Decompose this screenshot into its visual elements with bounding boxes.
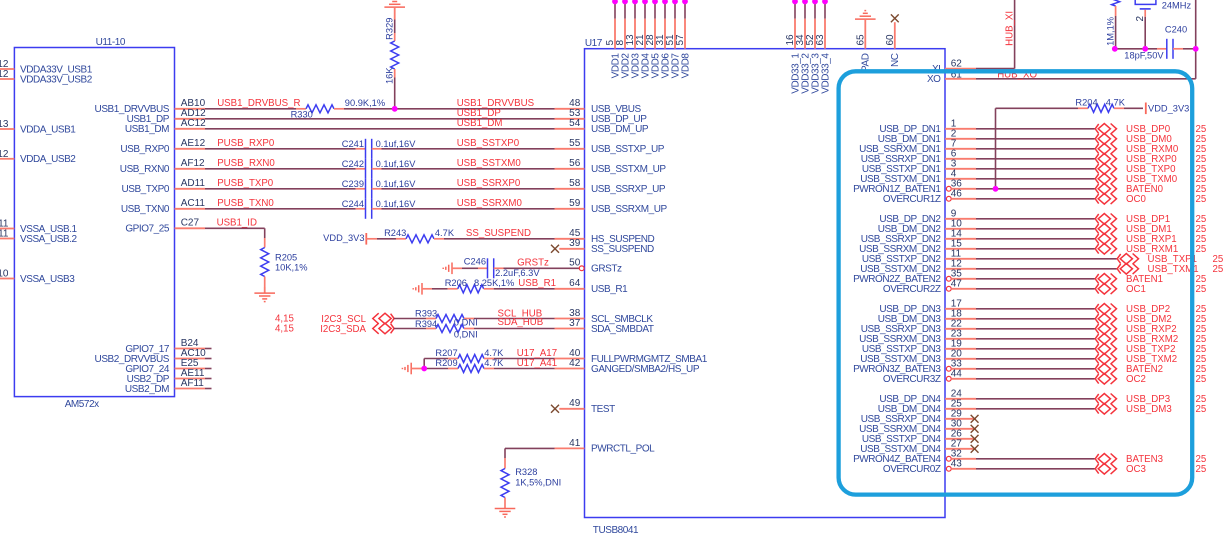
svg-text:0.1uf,16V: 0.1uf,16V [376,159,417,169]
svg-text:OVERCUR0Z: OVERCUR0Z [883,464,941,475]
svg-text:GANGED/SMBA2/HS_UP: GANGED/SMBA2/HS_UP [591,364,700,375]
svg-text:R206: R206 [445,278,467,288]
svg-text:AF12: AF12 [181,158,205,169]
U17 pin USB_SSRXP_DN4 (29) [861,408,976,425]
wire PUSB_RXN0 [205,168,356,170]
off-page connector USB_DP1 [1095,214,1116,225]
svg-text:VDD_3V3: VDD_3V3 [1148,104,1189,114]
wire pin41 to R328 [505,448,555,458]
wire PUSB_TXP0 [205,188,356,190]
page ref 25 for USB_DP1 [1196,214,1207,225]
wire U17_A41 net [494,358,557,369]
net label USB_RXM2 [1126,334,1178,345]
junction node C240/vertical [1193,46,1199,52]
page ref 25 for USB_DP2 [1196,304,1207,315]
off-page connector USB_DP0 [1095,124,1116,135]
U17 power pin VDD4 (21) [635,0,651,78]
net label USB1_DRVBUS_R [217,98,300,109]
resistor R329 16K [385,7,399,84]
wire to junction and U17 pin 48 [344,108,555,110]
page ref 25 for OC2 [1196,374,1207,385]
power tap VDD_3V3 (left) [323,233,366,245]
wire crystal pin2 down [1144,10,1146,49]
page ref 25 for BATEN3 [1196,454,1207,465]
wire BATEN1 net [976,278,1095,280]
resistor R394 0,DNI [415,319,478,339]
U17 pin USB_SSTXP_UP (55) [555,138,665,155]
net label BATEN1 [1126,274,1163,285]
svg-text:USB2_DM: USB2_DM [125,384,169,395]
wire USB_RXP1 net [976,238,1095,240]
svg-text:USB_SSRXM0: USB_SSRXM0 [457,198,523,209]
capacitor C240 18pF,50V [1124,24,1187,60]
svg-text:44: 44 [951,368,963,379]
page ref 25 for USB_RXP1 [1196,234,1207,245]
U11 pin USB_RXN0 (AF12) [120,158,205,175]
svg-text:OVERCUR2Z: OVERCUR2Z [883,284,941,295]
svg-text:12: 12 [0,69,9,80]
capacitor C246 2.2uF,6.3V [452,257,540,279]
U17 power pin VDD6 (31) [655,0,671,78]
wire R329 to USB1_DRVVBUS net [394,78,396,109]
crystal Y 24MHz [1135,0,1191,22]
page ref 25 for USB_RXM0 [1196,144,1207,155]
svg-text:37: 37 [569,318,581,329]
U17 pin OVERCUR2Z (47) [883,278,976,295]
wire USB_R1 net [494,278,556,289]
page ref 25 for USB_RXP0 [1196,154,1207,165]
svg-text:USB_SSTXM0: USB_SSTXM0 [457,158,522,169]
off-page connector USB_DP3 [1095,394,1116,405]
wire SDA_HUB net [474,317,555,329]
svg-text:55: 55 [569,138,581,149]
wire SCL_HUB net [474,309,555,320]
svg-text:USB1_ID: USB1_ID [217,218,257,229]
U17 pin SDA_SMBDAT (37) [555,318,654,335]
U17 power pin VDD2 (8) [615,0,631,78]
off-page connector USB_RXP0 [1095,154,1116,165]
capacitor C239 0.1uf,16V [342,179,416,199]
svg-text:8.25K,1%: 8.25K,1% [474,278,514,288]
svg-text:16K: 16K [385,67,395,84]
net label PUSB_RXP0 [217,138,275,149]
svg-text:USB_SSTXM_UP: USB_SSTXM_UP [591,164,666,175]
off-page connector OC2 [1095,374,1116,385]
page ref 25 for USB_TXP1 [1213,254,1224,265]
wire OC1 net [976,288,1095,290]
U11 pin USB1_DM (AC12) [125,118,206,135]
net label BATEN3 [1126,454,1163,465]
net label PUSB_TXP0 [217,178,274,189]
net label BATEN0 [1126,184,1164,195]
svg-text:47: 47 [951,278,963,289]
svg-text:U17: U17 [585,38,603,49]
U17 pin USB_SSRXM_UP (59) [555,198,668,215]
net label USB_RXM0 [1126,144,1179,155]
U17 pin PWRON2Z_BATEN2 (35) [853,268,976,285]
off-page connector USB_TXP0 [1095,164,1116,175]
page ref 25 for USB_TXM0 [1196,174,1207,185]
svg-text:49: 49 [569,398,581,409]
svg-text:50: 50 [569,258,581,269]
svg-text:C239: C239 [342,179,364,189]
svg-text:2.2uF,6.3V: 2.2uF,6.3V [495,268,540,278]
U17 pin SCL_SMBCLK (38) [555,308,654,325]
U17 power pin VDD33_3 (52) [805,0,821,94]
U17 pin USB_SSTXM_DN4 (27) [860,438,976,455]
page ref 25 for USB_DM2 [1196,314,1207,325]
page ref 25 for BATEN0 [1196,184,1207,195]
U17 pin GRSTz (50) with bubble [569,258,622,275]
U17 pin XO (61) wire HUB_XO [927,69,1196,85]
off-page connector OC1 [1095,284,1116,295]
U17 pin FULLPWRMGMTZ_SMBA1 (40) [555,348,708,365]
wire USB1_DRVBUS_R segment [205,108,296,110]
U17 pin GANGED/SMBA2/HS_UP (42) [555,358,700,375]
net label USB_DM0 [1126,134,1172,145]
wire USB_DP0 net [976,128,1095,130]
net label USB_TXP1 [1148,254,1198,265]
svg-text:64: 64 [569,278,581,289]
svg-text:39: 39 [569,238,581,249]
off-page connector USB_RXP2 [1095,324,1116,335]
resistor R328 1K,5%,DNI [501,458,561,509]
svg-text:R205: R205 [275,253,297,263]
svg-text:25: 25 [1196,244,1207,255]
U17 pin USB_DM_DN3 (18) [878,308,976,325]
svg-text:XO: XO [927,74,941,85]
off-page connector OC0 [1095,194,1116,205]
net label USB_DP2 [1126,304,1170,315]
wire USB_RXM1 net [976,248,1095,250]
wire USB_DM1 net [976,228,1095,230]
svg-text:OC0: OC0 [1126,194,1147,205]
U17 pin USB_DM_DN2 (10) [878,218,976,235]
svg-text:SS_SUSPEND: SS_SUSPEND [466,228,531,239]
svg-text:10: 10 [0,269,9,280]
svg-text:GRSTz: GRSTz [517,257,549,268]
wire C240 to right vertical [1173,48,1196,50]
svg-text:60: 60 [885,34,896,46]
svg-text:SDA_HUB: SDA_HUB [498,317,544,328]
page ref 25 for USB_RXM2 [1196,334,1207,345]
U17 power pin VDD1 (5) [605,0,621,78]
svg-text:57: 57 [675,34,686,46]
svg-text:VSSA_USB3: VSSA_USB3 [20,274,75,285]
svg-text:USB_RXN0: USB_RXN0 [120,164,170,175]
svg-text:VDD8: VDD8 [680,53,691,79]
net label USB_TXM2 [1126,354,1177,365]
U17 power pin VDD5 (28) [645,0,661,78]
svg-text:18pF,50V: 18pF,50V [1124,51,1164,61]
U17 pin USB_SSTXP_DN4 (26) [862,428,976,445]
svg-text:C240: C240 [1165,24,1187,34]
page refs 4,15 for I2C nets [275,314,294,335]
net label HUB_XO [997,70,1037,81]
svg-text:OC3: OC3 [1126,464,1146,475]
wire XTAL row [1115,48,1167,50]
off-page connector OC3 [1095,464,1116,475]
U11 pin VDDA33V_USB1 (12) [0,59,93,75]
net USB1_ID wire [205,218,265,238]
wire GRSTz net [504,257,580,268]
svg-text:4.7K: 4.7K [484,348,504,358]
svg-text:AC12: AC12 [181,118,206,129]
page ref 25 for USB_TXP2 [1196,344,1207,355]
off-page connector USB_RXM1 [1095,244,1116,255]
U17 pin PWRON1Z_BATEN1 (36) [853,178,976,195]
U17 pin USB_SSRXP_DN1 (6) [861,148,976,165]
svg-text:R204: R204 [1075,98,1097,108]
net label USB_DM2 [1126,314,1172,325]
net label USB_DP3 [1126,394,1170,405]
U17 pin USB_SSTXP_DN1 (3) [862,158,976,175]
svg-text:0.1uf,16V: 0.1uf,16V [376,139,417,149]
junction node crystal stem [1142,46,1148,52]
svg-text:0.1uf,16V: 0.1uf,16V [376,199,417,209]
U11 pin USB2_DP (AE11) [127,368,212,385]
resistor R204 4.7K [1075,98,1125,113]
page ref 25 for USB_TXM2 [1196,354,1207,365]
net label USB_DM3 [1126,404,1172,415]
wire USB_RXP0 net [976,158,1095,160]
svg-text:R329: R329 [385,18,395,40]
off-page connector I2C3_SDA [373,323,394,334]
wire right vertical to XO row [1195,0,1197,79]
svg-text:43: 43 [951,458,963,469]
U17 pin USB_SSRXP_DN3 (22) [861,318,976,335]
no-connect X on U17 NC pin 60 [885,14,901,67]
wire USB_SSRXP0 [382,178,555,189]
U17 pin OVERCUR3Z (44) [883,368,976,385]
svg-text:AC11: AC11 [181,198,206,209]
svg-text:C241: C241 [342,139,364,149]
no-connect X pin 27 [971,445,979,453]
U11 pin VDDA33V_USB2 (12) [0,69,93,85]
wire USB_DP3 net [976,398,1095,400]
svg-text:0.1uf,16V: 0.1uf,16V [376,179,417,189]
svg-text:58: 58 [569,178,581,189]
svg-text:I2C3_SDA: I2C3_SDA [320,324,366,335]
off-page connector USB_RXM0 [1095,144,1116,155]
power tap VDD_3V3 (right) [1124,103,1189,115]
page ref 25 for BATEN2 [1196,364,1207,375]
U17 power pin VDD7 (51) [665,0,681,78]
svg-text:25: 25 [1196,284,1207,295]
resistor R209 4.7K [424,358,504,373]
svg-text:46: 46 [951,188,963,199]
U11 pin USB2_DM (AF11) [125,378,212,395]
U17 pin PWRON3Z_BATEN3 (33) [853,358,976,375]
U11 pin VDDA_USB2 (12) [0,149,76,165]
U17 pin USB_SSRXP_DN2 (14) [861,228,976,245]
off-page connector BATEN2 [1095,364,1116,375]
svg-text:42: 42 [569,358,581,369]
page ref 25 for OC1 [1196,284,1207,295]
svg-text:VDDA_USB1: VDDA_USB1 [20,124,76,135]
U17 power pin VDD8 (57) [675,0,691,78]
wire I2C3_SDA to R394 [394,328,426,330]
IC U17 TUSB8041 body [585,38,946,536]
svg-text:R207: R207 [435,348,457,358]
svg-text:1M,1%: 1M,1% [1106,17,1116,46]
off-page connector USB_TXP2 [1095,344,1116,355]
svg-text:OC2: OC2 [1126,374,1146,385]
svg-text:OVERCUR1Z: OVERCUR1Z [883,194,941,205]
U17 pin SS_SUSPEND (39) no-connect [551,238,654,255]
svg-text:24MHz: 24MHz [1162,0,1192,10]
svg-text:VDDA33V_USB2: VDDA33V_USB2 [20,74,93,85]
net label USB_DP0 [1126,124,1171,135]
wire USB_TXP2 net [976,348,1095,350]
U17 pin USB_DM_DN4 (25) [878,398,976,415]
wire from ground to junction [411,368,424,370]
wire BATEN2 net [976,368,1095,370]
U17 power pin VDD33_4 (63) [815,0,831,94]
svg-text:OVERCUR3Z: OVERCUR3Z [883,374,941,385]
wire U17_A17 net [494,348,557,359]
wire USB_TXM0 net [976,178,1095,180]
wire USB1_DP [205,108,555,119]
off-page connector USB_RXP1 [1095,234,1116,245]
svg-text:VDDA_USB2: VDDA_USB2 [20,154,76,165]
U17 pin USB_DP_DN2 (9) [879,208,976,225]
svg-text:90.9K,1%: 90.9K,1% [345,98,385,108]
net label USB_RXP1 [1126,234,1177,245]
net label OC3 [1126,464,1146,475]
net label OC0 [1126,194,1147,205]
svg-text:U17_A41: U17_A41 [517,358,557,369]
svg-text:R209: R209 [435,358,457,368]
svg-text:USB_DM3: USB_DM3 [1126,404,1172,415]
U17 pin USB_SSRXM_DN1 (7) [859,138,976,155]
net label USB1_DRVVBUS [457,98,535,109]
svg-text:PWRCTL_POL: PWRCTL_POL [591,444,655,455]
wire USB_SSTXM0 [382,158,555,169]
U17 pin USB_SSTXP_DN2 (11) [862,248,976,265]
resistor R207 4.7K [424,348,504,363]
capacitor C241 0.1uf,16V [342,139,416,159]
wire VDD_3V3 pullup vertical [996,108,1079,189]
net label USB_RXP2 [1126,324,1177,335]
svg-text:SDA_SMBDAT: SDA_SMBDAT [591,324,654,335]
page ref 25 for USB_DP0 [1196,124,1207,135]
wire USB_RXM0 net [976,148,1095,150]
U17 power pin VDD33_2 (34) [795,0,811,94]
wire USB_DM0 net [976,138,1095,140]
U17 pin USB_SSTXM_UP (56) [555,158,667,175]
IC U11-10 AM572x body [14,37,174,410]
net label USB_RXP0 [1126,154,1177,165]
U11 pin USB2_DRVVBUS (AC10) [95,348,212,365]
svg-text:USB_SSTXP_UP: USB_SSTXP_UP [591,144,665,155]
page ref 25 for USB_DM1 [1196,224,1207,235]
off-page connector BATEN1 [1095,274,1116,285]
U11 pin GPIO7_17 (B24) [125,338,211,355]
no-connect X pin 29 [971,415,979,423]
svg-text:1K,5%,DNI: 1K,5%,DNI [515,478,561,488]
U17 pin XI (62) wire to crystal [932,0,1015,75]
resistor R393 0,DNI [415,309,478,328]
svg-text:11: 11 [0,229,9,240]
junction node R329/USB1_DRVVBUS [392,106,398,112]
svg-text:TUSB8041: TUSB8041 [593,525,639,536]
ground left of C246 [443,263,452,275]
svg-text:4,15: 4,15 [275,324,294,335]
U17 power pin VDD3 (13) [625,0,641,78]
wire OC3 net [976,468,1095,470]
net label USB_DM1 [1126,224,1172,235]
off-page connector USB_TXP1 [1117,254,1138,265]
svg-text:63: 63 [815,34,826,46]
svg-text:56: 56 [569,158,581,169]
U17 pin USB_SSRXP_UP (58) [555,178,666,195]
wire PUSB_TXN0 [205,208,356,210]
no-connect X pin 30 [971,425,979,433]
wire USB_DM3 net [976,408,1095,410]
svg-text:AF11: AF11 [181,378,205,389]
svg-text:25: 25 [1196,194,1207,205]
off-page connector USB_DM0 [1095,134,1116,145]
wire R207/R209 junction vertical [423,359,425,369]
U17 pin USB_SSTXP_DN3 (19) [862,338,976,355]
off-page connector USB_DP2 [1095,304,1116,315]
U11 pin USB1_DP (AD12) [127,108,207,125]
svg-text:USB_SSRXP_UP: USB_SSRXP_UP [591,184,666,195]
svg-text:GPIO7_25: GPIO7_25 [125,224,170,235]
svg-text:USB_DM_UP: USB_DM_UP [591,124,649,135]
svg-text:25: 25 [1196,404,1207,415]
net label OC1 [1126,284,1146,295]
svg-text:USB_R1: USB_R1 [591,284,628,295]
U11 pin USB_RXP0 (AE12) [120,138,205,155]
svg-text:U11-10: U11-10 [96,37,126,48]
net label BATEN2 [1126,364,1163,375]
wire USB_DP2 net [976,308,1095,310]
off-page connector USB_TXM0 [1095,174,1116,185]
svg-text:12: 12 [0,149,9,160]
U11 pin USB_TXN0 (AC11) [121,198,206,215]
off-page connector BATEN0 [1095,184,1116,195]
svg-text:62: 62 [951,58,963,69]
svg-text:54: 54 [569,118,581,129]
ground above U17 PAD pin 65 [855,11,876,72]
svg-text:HUB_XI: HUB_XI [1005,11,1016,46]
ground left of R206 [413,283,422,295]
svg-text:C246: C246 [464,257,486,267]
wire USB_RXM2 net [976,338,1095,340]
U17 pin USB_DP_DN4 (24) [879,388,976,405]
U11 pin GPIO7_25 (C27) [125,218,205,235]
svg-text:59: 59 [569,198,581,209]
svg-text:USB1_DM: USB1_DM [125,124,169,135]
svg-text:VSSA_USB.2: VSSA_USB.2 [20,234,78,245]
ground below R205 [254,287,275,302]
svg-text:41: 41 [569,438,581,449]
wire OC2 net [976,378,1095,380]
U17 power pin VDD33_1 (16) [785,0,801,94]
svg-text:USB1_DM: USB1_DM [457,118,503,129]
U17 pin USB_SSRXM_DN2 (15) [859,238,976,255]
resistor R206 8.25K,1% [422,278,514,293]
U17 pin USB_SSTXM_DN2 (12) [860,258,976,275]
svg-text:GRSTz: GRSTz [591,264,622,275]
svg-text:OC1: OC1 [1126,284,1146,295]
svg-text:0,DNI: 0,DNI [454,329,478,339]
off-page connector USB_DM2 [1095,314,1116,325]
page ref 25 for USB_RXP2 [1196,324,1207,335]
wire USB_TXP0 net [976,168,1095,170]
